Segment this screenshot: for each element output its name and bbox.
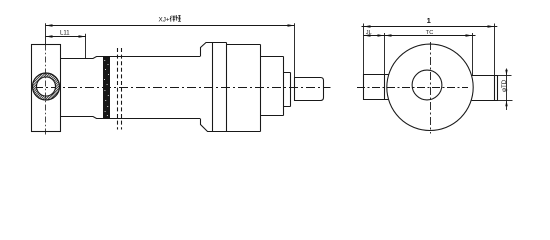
dimension phi TD extension top	[498, 75, 512, 77]
extension line left tab	[363, 24, 365, 75]
right view big circle	[387, 44, 473, 130]
tube bottom profile	[61, 117, 201, 119]
clevis plate	[32, 45, 61, 132]
right view inner circle	[412, 70, 442, 100]
dimension TC / JL line	[364, 35, 476, 37]
label XJ+stroke	[159, 15, 182, 23]
dimension phi TD line	[506, 69, 508, 111]
svg-text:TC: TC	[426, 30, 433, 36]
arrow XJ right	[288, 24, 295, 26]
eye inner circle	[37, 77, 56, 96]
dimension extension line at eye center	[45, 23, 47, 44]
dimension T line	[362, 26, 498, 28]
hidden dashed line 2	[121, 48, 123, 130]
head ring 1 (left edge with chamfers)	[201, 43, 261, 132]
extension line right tab right	[494, 24, 496, 76]
dimension L11 line	[46, 36, 87, 38]
arrow phiTD top	[505, 70, 507, 76]
head section 5 (gland)	[284, 73, 291, 107]
extension line tab right face	[384, 33, 386, 75]
dimension XJ line	[46, 25, 295, 27]
head step face 1	[226, 43, 228, 132]
arrow T right	[488, 25, 495, 27]
arrow JL left	[364, 34, 371, 36]
arrow TC right	[466, 34, 473, 36]
svg-text:L11: L11	[60, 30, 70, 36]
head right face	[290, 73, 292, 107]
main centerline	[34, 87, 331, 89]
dimension XJ extension line right	[294, 23, 296, 77]
head ring separator	[212, 43, 214, 132]
svg-text:JL: JL	[366, 30, 372, 36]
dimension L11 extension line right	[85, 34, 87, 59]
eye bearing ring (hatched)	[32, 73, 59, 100]
arrow L11 left	[46, 35, 53, 37]
hidden dashed line 1	[117, 48, 119, 130]
right view vertical centerline	[430, 42, 432, 134]
extension line circle right	[472, 33, 474, 76]
dimension phi TD extension bottom	[498, 100, 513, 102]
tube top profile	[61, 57, 201, 59]
arrow JL right	[378, 34, 385, 36]
eye vertical centerline	[45, 45, 47, 135]
arrow T left	[364, 25, 371, 27]
arrow TC left	[385, 34, 392, 36]
arrow phiTD bottom	[505, 101, 507, 107]
piston rod end	[295, 78, 324, 101]
arrow L11 right	[79, 35, 86, 37]
svg-text:φTD: φTD	[501, 79, 508, 92]
head section 3 top	[227, 44, 261, 46]
head step face 2	[260, 45, 262, 132]
arrow XJ left	[46, 24, 53, 26]
left trunnion tab	[364, 75, 389, 100]
weld band	[103, 56, 110, 119]
right view horizontal centerline	[357, 87, 468, 89]
svg-text:XJ+: XJ+	[159, 16, 170, 23]
head section 4	[261, 57, 284, 116]
eye outer circle	[33, 73, 60, 100]
right trunnion tab	[471, 76, 497, 101]
head step face 3	[283, 57, 285, 116]
svg-text:1: 1	[427, 16, 432, 25]
